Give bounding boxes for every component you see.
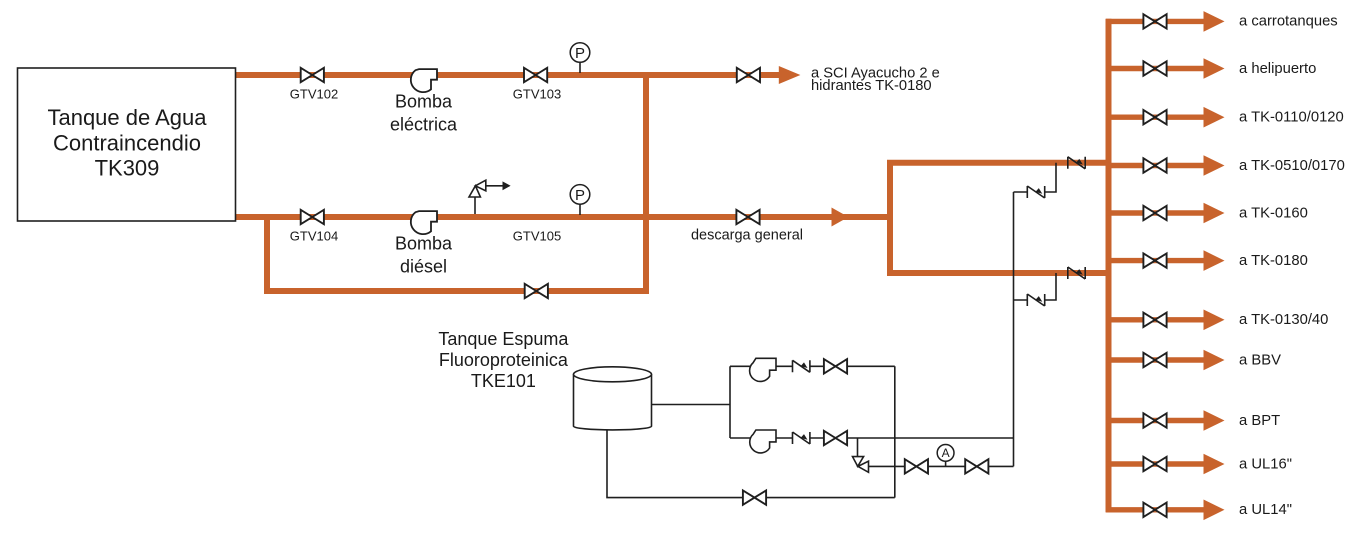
wire foam pump suction manifold	[729, 366, 731, 438]
valve A line right	[965, 459, 988, 473]
svg-text:descarga general: descarga general	[691, 228, 803, 244]
check valve upper tap	[1027, 186, 1044, 198]
svg-text:a carrotanques: a carrotanques	[1239, 14, 1338, 30]
svg-text:hidrantes TK-0180: hidrantes TK-0180	[811, 78, 932, 94]
arrow branch 6	[1204, 250, 1225, 271]
svg-text:a TK-0510/0170: a TK-0510/0170	[1239, 158, 1345, 174]
wire branch 10	[1106, 461, 1204, 466]
valve GTV103	[524, 68, 547, 82]
tank TK309	[18, 68, 236, 221]
arrow branch 3	[1204, 107, 1225, 128]
wire foam upper pump branch	[730, 365, 895, 367]
check valve foam upper	[793, 360, 810, 372]
wire diesel bypass loop	[267, 216, 646, 291]
arrow branch 4	[1204, 155, 1225, 176]
check valve manifold bottom	[1068, 267, 1085, 279]
svg-text:P: P	[575, 187, 585, 204]
svg-text:TKE101: TKE101	[471, 371, 536, 391]
wire branch 4	[1106, 163, 1204, 168]
wire foam tank outlet	[652, 404, 731, 406]
wire vertical connector between pump lines	[643, 72, 649, 294]
wire gauge stem A	[945, 461, 947, 466]
svg-text:a UL16": a UL16"	[1239, 456, 1292, 472]
arrow branch 9	[1204, 410, 1225, 431]
wire branch 1	[1106, 19, 1204, 24]
wire lower tap from manifold	[1014, 273, 1057, 300]
arrow branch 1	[1204, 11, 1225, 32]
check valve manifold top	[1068, 157, 1085, 169]
svg-text:A: A	[942, 446, 950, 460]
valve GTV102	[301, 68, 324, 82]
pump label Bomba electrica	[390, 91, 569, 391]
gauge A foam line	[937, 445, 954, 462]
wire foam proportioner line (A line)	[869, 465, 1014, 467]
pump Bomba electrica	[411, 69, 437, 92]
wire branch 7	[1106, 317, 1204, 322]
gauge P2 diesel line	[570, 185, 590, 205]
svg-text:a TK-0180: a TK-0180	[1239, 253, 1308, 269]
check valve lower tap	[1027, 294, 1044, 306]
gauge P1 electric line	[570, 43, 590, 63]
wire upper tap from manifold	[1014, 163, 1057, 192]
valve branch 5	[1143, 206, 1166, 220]
wire branch 8	[1106, 357, 1204, 362]
valve branch 10	[1143, 457, 1166, 471]
svg-text:GTV104: GTV104	[290, 229, 338, 244]
check valve foam lower	[793, 432, 810, 444]
valve descarga general	[736, 210, 759, 224]
pump Bomba diesel	[411, 211, 437, 234]
arrow descarga general	[832, 208, 849, 227]
pump foam lower	[750, 430, 776, 453]
relief angle valve on diesel line	[469, 180, 486, 197]
valve foam lower	[824, 431, 847, 445]
svg-text:GTV102: GTV102	[290, 87, 338, 102]
valve branch 3	[1143, 110, 1166, 124]
valve foam bottom	[743, 490, 766, 504]
wire branch 11	[1106, 507, 1204, 512]
svg-text:GTV103: GTV103	[513, 87, 561, 102]
arrow branch 7	[1204, 310, 1225, 331]
wire branch 9	[1106, 418, 1204, 423]
svg-text:a BPT: a BPT	[1239, 413, 1280, 429]
wire gauge stem P1	[579, 62, 581, 73]
wire distribution header	[1106, 19, 1112, 513]
arrow branch 10	[1204, 454, 1225, 475]
tank TKE101 foam cylinder	[574, 374, 652, 430]
arrow branch 11	[1204, 500, 1225, 521]
valve A line left	[905, 459, 928, 473]
valve GTV104	[301, 210, 324, 224]
svg-text:diésel: diésel	[400, 256, 447, 276]
valve branch 11	[1143, 503, 1166, 517]
wire relief valve stem	[474, 197, 476, 214]
wire foam return right vertical	[894, 366, 896, 497]
wire electric pump line	[236, 72, 780, 78]
wire branch 6	[1106, 258, 1204, 263]
svg-text:eléctrica: eléctrica	[390, 114, 458, 134]
svg-text:a UL14": a UL14"	[1239, 502, 1292, 518]
wire gauge stem P2	[579, 204, 581, 215]
svg-text:a TK-0160: a TK-0160	[1239, 205, 1308, 221]
svg-text:a BBV: a BBV	[1239, 352, 1281, 368]
valve SCI line	[737, 68, 760, 82]
valve foam upper	[824, 359, 847, 373]
wire diesel pump line (descarga general)	[236, 214, 891, 220]
svg-text:Contraincendio: Contraincendio	[53, 131, 201, 156]
valve branch 2	[1143, 61, 1166, 75]
arrow branch 8	[1204, 350, 1225, 371]
arrow relief vent	[503, 181, 511, 190]
arrow branch 2	[1204, 58, 1225, 79]
svg-text:a helipuerto: a helipuerto	[1239, 61, 1316, 77]
wire black riser to manifold	[1013, 192, 1015, 466]
valve bypass	[525, 284, 548, 298]
svg-text:TK309: TK309	[95, 156, 160, 181]
wire foam tank bottom return	[607, 429, 895, 498]
arrow branch 5	[1204, 203, 1225, 224]
wire branch 5	[1106, 210, 1204, 215]
svg-text:Bomba: Bomba	[395, 233, 453, 253]
valve branch 4	[1143, 158, 1166, 172]
svg-text:Fluoroproteinica: Fluoroproteinica	[439, 350, 569, 370]
svg-text:Tanque Espuma: Tanque Espuma	[438, 329, 569, 349]
foam angle valve	[853, 457, 869, 473]
valve branch 7	[1143, 313, 1166, 327]
wire branch 3	[1106, 114, 1204, 119]
svg-text:P: P	[575, 45, 585, 62]
valve branch 6	[1143, 253, 1166, 267]
wire branch 2	[1106, 66, 1204, 71]
pump foam upper	[750, 358, 776, 381]
wire relief vent arrow line	[486, 185, 503, 187]
valve branch 1	[1143, 14, 1166, 28]
svg-text:GTV105: GTV105	[513, 229, 561, 244]
svg-text:a TK-0130/40: a TK-0130/40	[1239, 312, 1328, 328]
valve branch 9	[1143, 413, 1166, 427]
svg-text:Bomba: Bomba	[395, 91, 453, 111]
svg-text:Tanque de Agua: Tanque de Agua	[47, 105, 207, 130]
wire manifold loop to header	[890, 163, 1109, 273]
wire foam angle valve stem	[857, 438, 859, 457]
valve branch 8	[1143, 353, 1166, 367]
arrow to SCI Ayacucho 2	[779, 66, 801, 84]
wire foam lower pump branch	[730, 437, 1014, 439]
svg-text:a TK-0110/0120: a TK-0110/0120	[1239, 110, 1344, 126]
node label tank TK309	[47, 105, 207, 181]
